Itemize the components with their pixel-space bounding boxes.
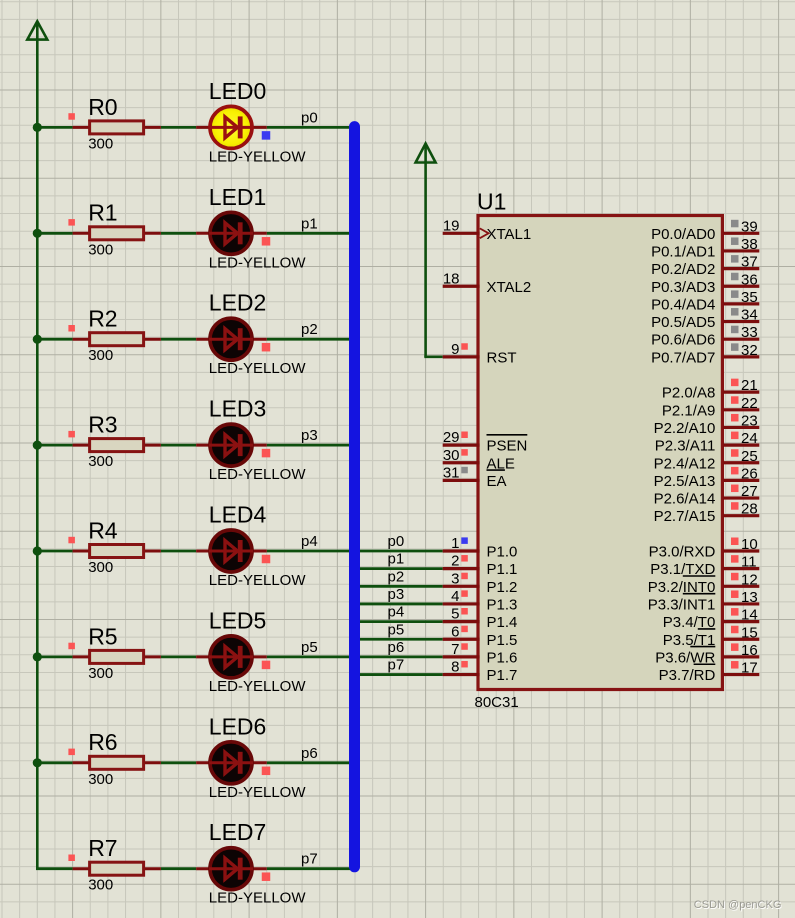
svg-text:25: 25 [741,448,758,465]
svg-text:21: 21 [741,377,758,394]
svg-text:P2.3/A11: P2.3/A11 [655,438,716,455]
svg-text:300: 300 [88,347,113,364]
svg-text:CSDN @penCKG: CSDN @penCKG [694,899,782,911]
svg-text:LED-YELLOW: LED-YELLOW [209,890,307,907]
svg-text:29: 29 [443,429,460,446]
svg-text:p5: p5 [301,639,318,656]
svg-text:P2.1/A9: P2.1/A9 [662,402,715,419]
svg-text:P1.5: P1.5 [487,632,518,649]
svg-text:28: 28 [741,501,758,518]
svg-text:7: 7 [451,641,459,658]
svg-text:39: 39 [741,218,758,235]
svg-text:P2.2/A10: P2.2/A10 [654,420,716,437]
svg-text:p0: p0 [388,533,405,550]
svg-text:P2.6/A14: P2.6/A14 [654,491,716,508]
svg-text:13: 13 [741,589,758,606]
svg-text:P0.4/AD4: P0.4/AD4 [651,296,715,313]
svg-text:p7: p7 [301,851,318,868]
svg-text:24: 24 [741,430,758,447]
svg-text:18: 18 [443,270,460,287]
svg-text:P1.1: P1.1 [487,561,518,578]
svg-text:p2: p2 [301,321,318,338]
svg-text:300: 300 [88,241,113,258]
svg-text:R0: R0 [88,94,117,120]
svg-text:LED-YELLOW: LED-YELLOW [209,466,307,483]
svg-text:12: 12 [741,571,758,588]
svg-text:27: 27 [741,483,758,500]
svg-text:22: 22 [741,395,758,412]
svg-text:p1: p1 [388,551,405,568]
svg-text:LED-YELLOW: LED-YELLOW [209,360,307,377]
svg-text:P0.5/AD5: P0.5/AD5 [651,314,715,331]
svg-text:p4: p4 [388,604,405,621]
svg-text:R4: R4 [88,517,118,543]
svg-text:R7: R7 [88,835,117,861]
svg-text:15: 15 [741,624,758,641]
svg-text:37: 37 [741,254,758,271]
svg-text:LED4: LED4 [209,502,267,528]
svg-text:R6: R6 [88,729,117,755]
svg-text:300: 300 [88,135,113,152]
svg-text:11: 11 [741,554,757,571]
svg-text:3: 3 [451,570,459,587]
svg-text:LED-YELLOW: LED-YELLOW [209,254,307,271]
svg-text:P0.1/AD1: P0.1/AD1 [651,243,715,260]
svg-text:300: 300 [88,453,113,470]
svg-text:35: 35 [741,289,758,306]
svg-text:2: 2 [451,553,459,570]
svg-text:p6: p6 [301,745,318,762]
svg-text:LED-YELLOW: LED-YELLOW [209,784,307,801]
svg-text:XTAL1: XTAL1 [487,226,532,243]
svg-text:P1.6: P1.6 [487,649,518,666]
svg-text:P0.3/AD3: P0.3/AD3 [651,279,715,296]
svg-text:P0.7/AD7: P0.7/AD7 [651,349,715,366]
svg-text:LED5: LED5 [209,607,267,633]
svg-text:p7: p7 [388,657,405,674]
svg-text:9: 9 [451,341,459,358]
svg-text:80C31: 80C31 [475,694,519,711]
svg-text:17: 17 [741,660,758,677]
svg-text:8: 8 [451,659,459,676]
svg-text:23: 23 [741,412,758,429]
svg-text:p6: p6 [388,639,405,656]
svg-text:300: 300 [88,771,113,788]
svg-text:LED6: LED6 [209,713,267,739]
svg-text:p0: p0 [301,109,318,126]
svg-text:EA: EA [487,473,507,490]
svg-text:5: 5 [451,606,459,623]
svg-text:R5: R5 [88,623,117,649]
svg-text:34: 34 [741,307,758,324]
svg-text:R1: R1 [88,200,117,226]
svg-text:R2: R2 [88,306,117,332]
svg-text:300: 300 [88,559,113,576]
svg-text:P1.2: P1.2 [487,579,518,596]
svg-text:36: 36 [741,271,758,288]
svg-text:30: 30 [443,447,460,464]
svg-text:p2: p2 [388,568,405,585]
svg-text:P3.0/RXD: P3.0/RXD [649,544,716,561]
svg-text:LED7: LED7 [209,819,267,845]
svg-text:P1.3: P1.3 [487,596,518,613]
svg-text:P1.4: P1.4 [487,614,518,631]
svg-text:14: 14 [741,607,758,624]
svg-text:P2.4/A12: P2.4/A12 [654,455,716,472]
svg-text:p5: p5 [388,621,405,638]
svg-text:P0.6/AD6: P0.6/AD6 [651,332,715,349]
svg-text:6: 6 [451,623,459,640]
svg-text:LED1: LED1 [209,184,267,210]
svg-text:P2.7/A15: P2.7/A15 [654,508,716,525]
svg-text:31: 31 [443,464,460,481]
svg-text:26: 26 [741,465,758,482]
svg-text:P2.0/A8: P2.0/A8 [662,385,715,402]
svg-text:P3.3/INT1: P3.3/INT1 [648,596,716,613]
svg-text:RST: RST [487,349,517,366]
svg-text:P2.5/A13: P2.5/A13 [654,473,716,490]
svg-text:10: 10 [741,536,758,553]
svg-text:LED3: LED3 [209,396,267,422]
svg-text:300: 300 [88,877,113,894]
svg-text:1: 1 [451,535,459,552]
svg-text:LED2: LED2 [209,290,267,316]
svg-text:p3: p3 [388,586,405,603]
svg-text:R3: R3 [88,412,117,438]
svg-text:P0.0/AD0: P0.0/AD0 [651,226,715,243]
svg-text:32: 32 [741,342,758,359]
svg-text:38: 38 [741,236,758,253]
svg-text:P0.2/AD2: P0.2/AD2 [651,261,715,278]
svg-text:33: 33 [741,324,758,341]
svg-text:LED0: LED0 [209,78,267,104]
svg-text:U1: U1 [477,189,506,215]
svg-text:16: 16 [741,642,758,659]
svg-text:LED-YELLOW: LED-YELLOW [209,148,307,165]
svg-text:p4: p4 [301,533,318,550]
svg-text:LED-YELLOW: LED-YELLOW [209,572,307,589]
svg-text:4: 4 [451,588,459,605]
svg-text:p1: p1 [301,215,318,232]
svg-text:PSEN: PSEN [487,438,528,455]
svg-text:LED-YELLOW: LED-YELLOW [209,678,307,695]
svg-text:19: 19 [443,217,460,234]
svg-text:P1.7: P1.7 [487,667,518,684]
svg-text:XTAL2: XTAL2 [487,279,532,296]
svg-text:P1.0: P1.0 [487,544,518,561]
svg-text:P3.7/RD: P3.7/RD [659,667,716,684]
svg-text:300: 300 [88,665,113,682]
svg-text:p3: p3 [301,427,318,444]
